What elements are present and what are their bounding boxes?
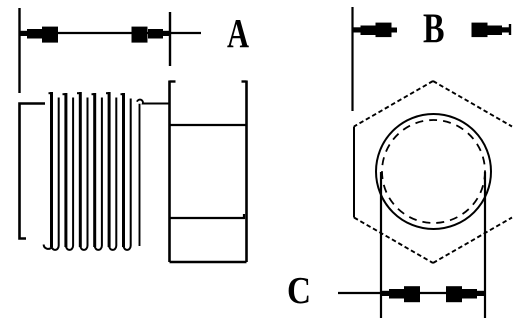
dimension B: left extension line: [351, 7, 353, 111]
side view: thread coil top flags: [49, 93, 126, 94]
front view: hexagon bottom-left edge: [354, 218, 433, 264]
side view: hex head top-right corner tick: [242, 80, 247, 82]
front view: outer chamfer circle (solid): [376, 114, 491, 229]
dimension A: left extension line: [18, 8, 20, 93]
dimension A: right arrowhead: [132, 27, 171, 43]
side view: hex head bottom edge: [170, 261, 247, 264]
dimension C: right arrowhead: [446, 286, 484, 302]
side view: left end face bracket: [20, 104, 46, 239]
dimension B: right arrowhead: [472, 23, 510, 37]
side view: hex head lower chamfer line: [170, 214, 245, 218]
dimension A: dimension line: [20, 32, 201, 34]
front view: hexagon bottom-right edge: [433, 218, 512, 264]
side view: hex head outline right edge: [245, 81, 248, 263]
dimension C: dimension line: [338, 292, 486, 294]
dimension A: left arrowhead: [20, 27, 58, 43]
front view: hexagon top-right edge: [433, 81, 512, 127]
side view: thread coil thin root lines: [59, 98, 131, 246]
side view: thread run-out curl and shank line to head: [137, 100, 170, 246]
side view: hex head outline left edge: [168, 81, 171, 263]
side view: thread coil thick crest lines with top flags: [52, 94, 124, 246]
front view: hexagon left flat edge: [353, 127, 355, 218]
svg-text:A: A: [227, 10, 249, 56]
side view: hex head top-left corner tick: [170, 80, 176, 82]
svg-text:C: C: [287, 270, 311, 312]
svg-text:B: B: [423, 7, 445, 53]
dimension C: right extension line: [484, 172, 486, 318]
side view: thread coil bottom U bends: [44, 245, 131, 250]
dimension C: left extension line: [380, 172, 382, 318]
side view: hex head upper chamfer line: [170, 124, 247, 126]
dimension B: left arrowhead with tail: [354, 23, 398, 37]
front view: inner thread circle (dashed): [382, 120, 485, 223]
dimension B: right extension tick: [509, 24, 511, 35]
dimension C: left arrowhead: [382, 286, 420, 302]
front view: hexagon top-left edge: [354, 81, 433, 127]
dimension A: right extension line: [169, 12, 171, 66]
